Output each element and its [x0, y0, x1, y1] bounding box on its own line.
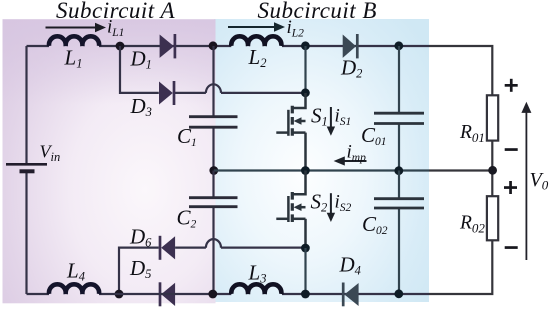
subcircuit A shaded region: [3, 19, 216, 303]
node N8 mid rail C0 branch: [394, 166, 403, 175]
node N6 mid rail left (C1-C2 junction): [209, 166, 218, 175]
arrow iL2: [228, 22, 285, 32]
svg-text:R01: R01: [459, 122, 485, 145]
capacitor C01: [374, 113, 424, 123]
node N4 D3-row meets S1 branch: [301, 88, 310, 97]
svg-text:V0: V0: [530, 169, 549, 192]
capacitor C2: [189, 198, 238, 207]
svg-text:Subcircuit A: Subcircuit A: [56, 0, 176, 23]
wire top rail right (white zone): [429, 46, 492, 95]
svg-text:Subcircuit B: Subcircuit B: [258, 0, 377, 23]
diode D4: [343, 283, 358, 307]
node N11 C2 bottom rail: [208, 290, 217, 299]
diode D6: [160, 236, 175, 260]
wire C1 branch vertical: [212, 46, 214, 171]
diode D2: [343, 34, 358, 58]
minus sign R01: [505, 148, 518, 151]
node N1 after L1: [116, 42, 125, 51]
wire bottom rail white zone: [429, 240, 492, 294]
node N14 R01-R02 junction: [488, 166, 497, 175]
capacitor C02: [374, 199, 424, 208]
subcircuit B shaded region: [214, 19, 429, 302]
wire C2 branch: [212, 171, 214, 295]
node N13 C02 bottom rail: [394, 289, 403, 298]
wire mid rail: [214, 169, 429, 171]
node N7 mid rail S branch: [301, 166, 310, 175]
transistor S2: [276, 171, 305, 249]
transistor S1 body arrow: [294, 117, 302, 125]
arrow imp: [334, 156, 367, 165]
wire bottom rail: [27, 293, 430, 295]
wire D6 branch: [119, 248, 306, 294]
arrow iS1: [327, 107, 335, 136]
arrow V0: [521, 102, 531, 260]
wire R01 to mid node: [491, 141, 493, 197]
node N2 top of C1 branch: [209, 41, 218, 50]
node N10 bottom D6 riser: [115, 290, 124, 299]
inductor L4: [49, 284, 99, 294]
node N3 top of S1 branch: [301, 41, 310, 50]
wire C02 branch: [398, 171, 400, 295]
node N12 S2 bottom rail: [301, 290, 310, 299]
diode D3: [159, 81, 174, 105]
wire mid rail white zone: [429, 169, 492, 171]
wire top rail: [27, 45, 430, 47]
plus sign R02: [504, 181, 517, 194]
transistor S2 body arrow: [294, 203, 302, 211]
node N9 S2 source / D6 row: [301, 244, 310, 253]
svg-text:R02: R02: [459, 213, 485, 236]
transistor S1: [276, 93, 305, 171]
arrow iS2: [327, 193, 335, 222]
wire S1 drain from top rail: [304, 46, 306, 93]
wire hop over C1 branch: [206, 84, 221, 93]
plus sign R01: [505, 79, 518, 92]
wire left vertical: [25, 46, 27, 294]
minus sign R02: [505, 246, 518, 249]
battery Vin long plate: [6, 163, 47, 166]
resistor R02: [487, 196, 498, 240]
inductor L2: [231, 36, 281, 46]
capacitor C1: [189, 117, 238, 128]
wire C01 branch: [398, 46, 400, 171]
wire D3 branch: [120, 46, 306, 93]
inductor L1: [49, 36, 99, 46]
diode D1: [160, 34, 175, 58]
diode D5: [160, 282, 175, 306]
battery Vin short plate: [20, 169, 35, 173]
node N5 top of C01 branch: [394, 41, 403, 50]
inductor L3: [231, 284, 281, 294]
wire S2 source to bottom rail: [304, 248, 306, 294]
wire hop over C2 branch: [206, 239, 221, 248]
resistor R01: [487, 95, 498, 140]
arrow iL1: [46, 23, 107, 33]
